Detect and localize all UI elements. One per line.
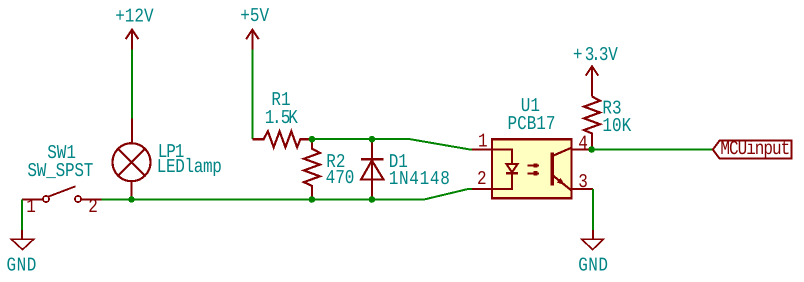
U1 pin 4 lead <box>572 149 592 151</box>
U1 phototransistor <box>550 148 571 191</box>
resistor R2 <box>304 139 320 199</box>
diode D1 <box>361 139 384 199</box>
opto-isolator U1 body <box>492 139 572 198</box>
U1 pin 3 lead <box>572 188 594 190</box>
junction R2 bottom <box>309 196 316 203</box>
wire +5V to R1 <box>251 49 253 139</box>
junction R2 top <box>309 136 316 143</box>
svg-text:SW_SPST: SW_SPST <box>27 160 93 182</box>
svg-text:LEDlamp: LEDlamp <box>157 156 222 178</box>
wire pin4 to MCUinput <box>592 149 713 151</box>
junction U1 pin4 / R3 <box>588 146 595 153</box>
power +5V arrow <box>246 30 259 50</box>
ground symbol left <box>11 230 33 249</box>
svg-text:1: 1 <box>26 196 36 218</box>
lamp LP1 <box>113 119 151 200</box>
U1 coupling arrows <box>528 165 540 173</box>
svg-text:2: 2 <box>477 168 487 190</box>
svg-text:1: 1 <box>478 131 488 153</box>
wire bottom rail <box>102 189 472 199</box>
svg-text:MCUinput: MCUinput <box>720 138 789 160</box>
svg-text:+3.3V: +3.3V <box>573 44 618 66</box>
U1 pin 2 lead <box>472 188 492 190</box>
svg-text:3: 3 <box>578 171 588 193</box>
svg-text:2: 2 <box>88 196 98 218</box>
junction D1 bottom <box>369 196 376 203</box>
svg-text:1N4148: 1N4148 <box>389 168 451 190</box>
svg-text:PCB17: PCB17 <box>508 113 556 135</box>
U1 internal LED <box>492 150 518 190</box>
wire top rail <box>312 139 472 149</box>
U1 pin 1 lead <box>472 149 492 151</box>
svg-text:10K: 10K <box>602 115 631 137</box>
wire switch pin1 to ground <box>21 200 23 231</box>
switch SW1 <box>22 186 102 202</box>
svg-text:GND: GND <box>7 254 37 276</box>
power +12V arrow <box>126 30 139 50</box>
svg-text:470: 470 <box>326 167 355 189</box>
svg-text:+12V: +12V <box>115 5 154 27</box>
wire +12V to lamp <box>131 49 133 118</box>
global label MCUinput <box>713 138 792 160</box>
svg-text:GND: GND <box>578 254 608 276</box>
wire pin3 to ground <box>592 189 594 230</box>
junction D1 top <box>369 136 376 143</box>
svg-text:+5V: +5V <box>240 5 269 27</box>
ground symbol right <box>582 230 604 249</box>
svg-text:1.5K: 1.5K <box>265 107 299 129</box>
resistor R3 <box>584 97 600 150</box>
power +3.3V arrow <box>586 66 599 96</box>
junction lamp/bottom rail <box>128 196 135 203</box>
resistor R1 <box>252 131 312 147</box>
svg-text:4: 4 <box>578 133 588 155</box>
